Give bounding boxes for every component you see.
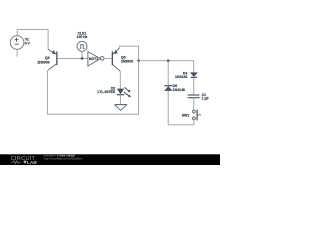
wire D4 cathode to C1 [193,77,195,95]
wire LED cathode to ground [119,95,121,105]
CircuitLab logo [11,156,38,166]
LED D2 [97,86,131,104]
wire V1 top to Q3 emitter [17,30,48,50]
base bar [56,51,57,65]
base bar [112,51,113,65]
wire Q3 base to NOT1 input [58,57,88,59]
collector diagonal [48,64,56,70]
wire node to D4 anode [193,61,195,73]
svg-text:LTL-307EE: LTL-307EE [97,90,115,94]
svg-text:1N4148: 1N4148 [175,75,187,79]
emitter diagonal with arrow [113,48,119,54]
transistor Q3 (PNP 2N3906) [37,49,57,70]
svg-text:1N4148: 1N4148 [173,88,185,92]
transistor Q6 (PNP 2N3906) [112,48,134,71]
svg-text:2N3906: 2N3906 [37,60,49,64]
ground [115,105,127,111]
wire SW1 bottom lead [193,120,195,125]
svg-text:1 µF: 1 µF [202,97,210,101]
svg-text:LAB: LAB [27,160,37,165]
wire node row right [139,60,194,62]
wire D6 anode down to SW1 bottom [168,91,194,125]
diode D6 1N4148 [164,61,194,125]
emitter diagonal with arrow [48,49,56,54]
inverter NOT1 [88,52,104,66]
switch SW1 [182,110,201,125]
diode D4 1N4148 [175,61,198,95]
wire node to D6 cathode [167,61,169,86]
svg-text:100 Hz: 100 Hz [77,35,88,39]
svg-text:http:/​/circuitlab.com/c/9cktb: http:/​/circuitlab.com/c/9cktb6w [44,157,83,161]
node junction D6 tap [167,59,170,62]
LED emission arrows [124,87,129,95]
wire Q6 emitter loop to node [119,46,138,61]
capacitor C1 [188,93,210,110]
voltage source V1 [10,36,24,50]
wire bottom return loop [47,61,138,114]
svg-text:NOT1: NOT1 [89,57,98,61]
collector diagonal [113,65,120,71]
wire Q6 collector to LED [119,71,121,88]
clock source CLK1 [77,31,88,59]
wire NOT1 output to Q6 base [104,57,112,59]
svg-text:6 V: 6 V [25,42,31,46]
node junction emitter/node row [137,59,140,62]
wire CLK1 to base row [81,51,83,58]
node junction clk/base [81,57,84,60]
wire C1 to SW1 [193,98,195,110]
svg-text:2N3906: 2N3906 [121,60,133,64]
wire V1 bottom stub [16,49,18,56]
svg-text:SW1: SW1 [182,114,190,118]
banner [0,154,220,165]
